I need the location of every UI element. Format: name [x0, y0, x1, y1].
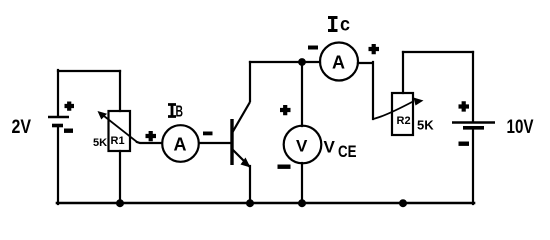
transistor base bar	[230, 119, 233, 165]
wire IC ammeter right lead	[358, 62, 373, 119]
battery 2V minus sign	[64, 129, 73, 133]
label IC	[328, 18, 338, 31]
wire bottom rail	[57, 202, 474, 205]
wire IB ammeter to base	[199, 142, 231, 144]
junction node R2 bottom	[399, 199, 407, 207]
svg-text:2V: 2V	[12, 117, 32, 138]
battery 2V plus sign	[65, 102, 75, 111]
wire left-loop top	[58, 70, 120, 72]
battery 10V plus sign	[459, 101, 470, 111]
transistor emitter arrowhead	[241, 158, 251, 168]
svg-text:B: B	[176, 104, 184, 121]
transistor collector diagonal	[232, 102, 250, 133]
svg-text:10V: 10V	[507, 117, 534, 138]
wire R1 wiper to IB ammeter	[137, 142, 162, 143]
wire VCE branch upper	[301, 62, 303, 126]
wire R2 top stub	[402, 52, 404, 93]
wire R1 bottom stub	[119, 151, 121, 203]
wire top right rail	[403, 51, 473, 53]
potentiometer R1 wiper arrow	[98, 111, 138, 142]
wire left vertical (battery bottom lead)	[57, 126, 59, 204]
wire top middle rail	[250, 61, 320, 63]
plus sign at R1 wiper output	[146, 131, 157, 141]
wire right vertical (10V bottom lead)	[472, 128, 474, 204]
svg-text:R1: R1	[111, 135, 125, 147]
svg-text:A: A	[174, 135, 187, 155]
junction node R1 bottom	[116, 199, 124, 207]
voltmeter V (VCE)	[284, 126, 322, 164]
minus sign left of IC ammeter	[308, 46, 318, 50]
svg-text:A: A	[332, 53, 345, 73]
svg-text:CE: CE	[338, 143, 357, 161]
svg-text:V: V	[324, 138, 336, 157]
junction node emitter bottom	[246, 199, 254, 207]
plus sign right of IC ammeter	[369, 44, 380, 54]
ammeter A (IC)	[320, 43, 358, 81]
battery 10V	[452, 123, 495, 128]
wire collector vertical	[249, 62, 251, 101]
transistor emitter diagonal	[232, 149, 250, 167]
svg-text:V: V	[296, 137, 308, 156]
minus sign right of IB ammeter	[203, 132, 213, 136]
battery 2V	[48, 117, 69, 126]
ammeter A (IB)	[162, 125, 199, 162]
minus sign below voltmeter	[278, 165, 291, 169]
label IB	[168, 105, 176, 117]
potentiometer R2 body	[392, 93, 413, 135]
transistor Q1	[232, 102, 251, 168]
wire R1 top stub	[119, 71, 121, 111]
junction node VCE bottom	[298, 199, 306, 207]
battery 10V minus sign	[459, 142, 470, 146]
junction node (top, VCE tap)	[298, 58, 306, 66]
svg-text:c: c	[340, 15, 350, 36]
svg-text:5K: 5K	[417, 118, 434, 133]
wire emitter vertical	[249, 166, 251, 203]
plus sign above voltmeter	[280, 105, 291, 115]
svg-text:5K: 5K	[93, 137, 107, 149]
wire right vertical (10V top lead)	[472, 52, 474, 121]
svg-text:R2: R2	[397, 115, 411, 127]
wire VCE branch lower	[301, 163, 303, 203]
wire left vertical (battery top lead)	[57, 70, 59, 116]
potentiometer R1 body	[109, 111, 131, 151]
potentiometer R2 wiper arrow	[373, 98, 424, 120]
